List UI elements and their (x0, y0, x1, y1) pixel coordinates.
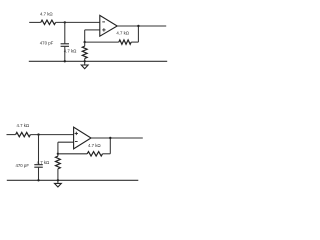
wire: ground rail (bottom circuit) (7, 179, 139, 181)
node: C1b to rail junction (37, 179, 39, 181)
resistor R3 4.7 kOhm (feedback, bottom circuit) (87, 152, 102, 156)
wire: feedback run to R3 (85, 41, 119, 43)
svg-text:4.7 kΩ: 4.7 kΩ (88, 143, 101, 148)
svg-text:470 pF: 470 pF (40, 40, 54, 45)
node: R2b to rail junction (57, 179, 59, 181)
wire: op-amp output (bottom) (91, 137, 143, 139)
svg-text:4.7 kΩ: 4.7 kΩ (16, 123, 29, 128)
resistor R2 4.7 kOhm (to ground, top circuit) (84, 42, 86, 46)
node: junction of wire and C1 (64, 21, 66, 23)
op-amp U2 (bottom circuit) (74, 127, 91, 149)
wire: vertical from - input down to feedback node (57, 142, 59, 154)
ground (top circuit, arrow below rail) (81, 65, 88, 69)
wire: inverting input stub (58, 141, 74, 143)
resistor R1 4.7 kOhm (series input, top circuit) (41, 20, 56, 24)
svg-text:470 pF: 470 pF (15, 163, 29, 168)
wire: R3 to corner (131, 41, 138, 43)
wire: op-amp output (117, 25, 166, 27)
op-amp U2 plus sign (75, 132, 78, 134)
capacitor C1 470 pF (top circuit) (64, 22, 66, 43)
wire: corner up to output (109, 138, 111, 154)
node: R2 to rail junction (84, 60, 86, 62)
node: output / feedback junction (bottom) (109, 137, 111, 139)
wire: R1 to op-amp non-inverting input (30, 134, 73, 136)
wire: ground rail (top circuit) (29, 60, 167, 62)
wire: input lead left of R1b (7, 134, 16, 136)
wire: vertical from + input down to feedback node (84, 30, 86, 42)
wire: R1 to op-amp inverting input (56, 21, 100, 23)
svg-text:4.7 kΩ: 4.7 kΩ (37, 160, 50, 165)
ground (bottom circuit, arrow below rail) (55, 183, 62, 187)
node: feedback / R2 junction (84, 41, 86, 43)
op-amp U1 minus sign (102, 21, 105, 23)
wire: R3b to corner (103, 153, 111, 155)
op-amp U1 plus sign (102, 29, 105, 31)
capacitor C1 470 pF (bottom circuit) (38, 135, 40, 165)
resistor R3 4.7 kOhm (feedback, top circuit) (119, 40, 131, 44)
svg-text:4.7 kΩ: 4.7 kΩ (64, 48, 77, 53)
node: junction of wire and C1b (37, 133, 39, 135)
wire: corner up to output (137, 26, 139, 42)
wire: feedback run to R3b (58, 153, 87, 155)
node: C1 to rail junction (64, 60, 66, 62)
node: feedback / R2b junction (57, 153, 59, 155)
wire: non-inverting input stub (85, 29, 100, 31)
op-amp U1 (top circuit) (100, 15, 117, 36)
op-amp U2 minus sign (75, 141, 78, 143)
svg-text:4.7 kΩ: 4.7 kΩ (40, 12, 53, 17)
resistor R2 4.7 kOhm (to ground, bottom circuit) (57, 154, 59, 156)
wire: input lead left of R1 (29, 21, 41, 23)
svg-text:4.7 kΩ: 4.7 kΩ (116, 31, 129, 36)
node: output / feedback junction (137, 25, 139, 27)
resistor R1 4.7 kOhm (series input, bottom circuit) (16, 132, 31, 136)
